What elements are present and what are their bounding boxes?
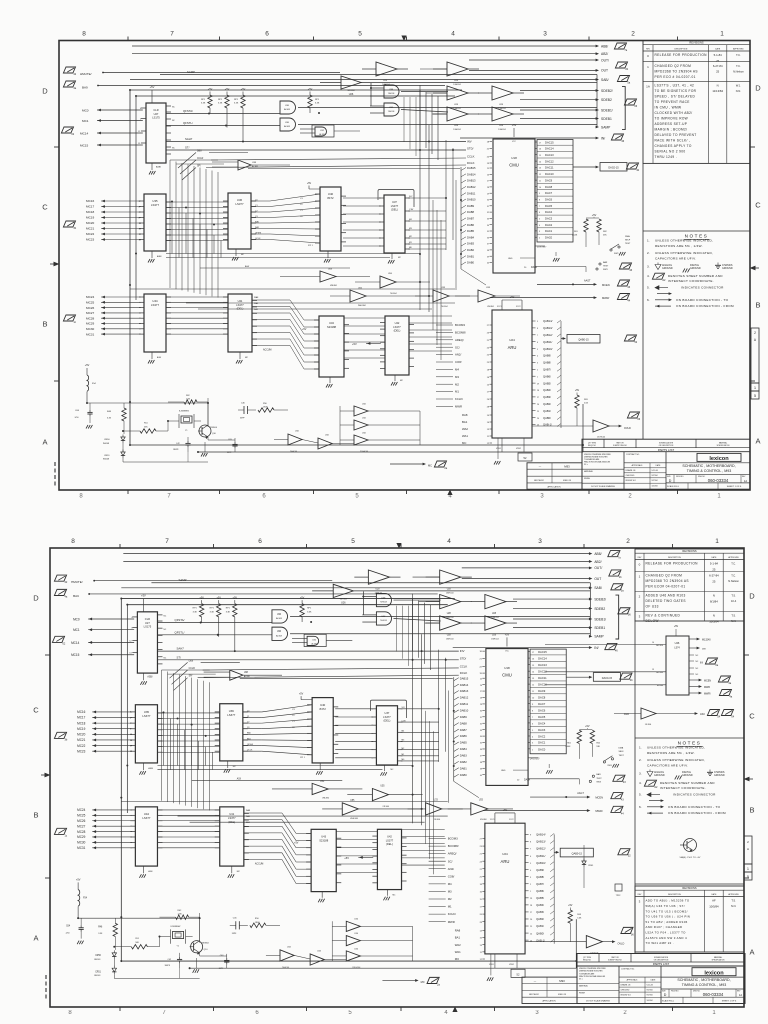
scale sheet row	[666, 482, 750, 484]
svg-text:9-21-84: 9-21-84	[647, 985, 653, 987]
svg-text:DIMENSIONS ARE IN INCHES: DIMENSIONS ARE IN INCHES	[584, 455, 608, 458]
transistor symbol in notes	[684, 839, 697, 852]
svg-text:UNLESS OTHERWISE INDICATED,: UNLESS OTHERWISE INDICATED,	[647, 746, 705, 750]
grid row ticks	[54, 146, 59, 148]
svg-text:RELEASE FOR PRODUCTION: RELEASE FOR PRODUCTION	[655, 53, 708, 57]
svg-text:SCALE FULL: SCALE FULL	[667, 485, 680, 488]
svg-text:AND R107 ; CHANGED: AND R107 ; CHANGED	[646, 925, 683, 929]
svg-text:T.C.: T.C.	[731, 562, 736, 566]
svg-text:C: C	[33, 706, 39, 715]
svg-text:N.Nelson: N.Nelson	[733, 69, 744, 73]
svg-text:T.C.: T.C.	[736, 64, 741, 68]
svg-text:NOMENCLATURE: NOMENCLATURE	[654, 956, 669, 959]
svg-text:MCB6: MCB6	[657, 685, 664, 687]
svg-text:B: B	[33, 811, 38, 820]
svg-text:REV: REV	[638, 557, 642, 559]
svg-text:QTY ITEM: QTY ITEM	[588, 443, 597, 445]
svg-text:10-4: 10-4	[731, 599, 737, 603]
svg-text:060-03334: 060-03334	[703, 992, 724, 997]
svg-text:TO IMPROVE ROW: TO IMPROVE ROW	[655, 117, 689, 121]
svg-text:T.S.: T.S.	[731, 594, 736, 598]
svg-text:6-27-84: 6-27-84	[713, 64, 723, 68]
U46 output MWR/	[689, 692, 700, 694]
U46 output DNI	[689, 647, 698, 649]
svg-text:INTERSECT COORDINATE.: INTERSECT COORDINATE.	[668, 279, 714, 283]
svg-text:1: 1	[754, 386, 756, 390]
svg-text:D: D	[755, 84, 761, 93]
svg-text:GROUND: GROUND	[722, 267, 733, 270]
svg-text:T.S.: T.S.	[731, 614, 736, 618]
svg-text:M93: M93	[564, 465, 570, 469]
svg-text:DWG NO.: DWG NO.	[693, 991, 701, 993]
svg-text:3.: 3.	[639, 772, 642, 776]
parts list header strip	[577, 961, 745, 963]
svg-text:6.: 6.	[647, 298, 650, 302]
svg-text:ON BOARD CONNECTION - FROM: ON BOARD CONNECTION - FROM	[676, 304, 734, 308]
svg-text:TIMING & CONTROL , M93: TIMING & CONTROL , M93	[687, 469, 731, 473]
svg-text:NC: NC	[696, 668, 699, 670]
wire M1326 feed	[545, 644, 640, 646]
svg-text:APPLICATION: APPLICATION	[542, 1000, 556, 1003]
svg-text:LS377'S , U37, 41 , 42: LS377'S , U37, 41 , 42	[655, 84, 695, 88]
svg-text:8/1/84: 8/1/84	[710, 599, 718, 603]
right column continuation	[642, 163, 644, 439]
svg-text:M1326: M1326	[656, 645, 663, 647]
svg-text:DENOTES SHEET NUMBER AND: DENOTES SHEET NUMBER AND	[660, 781, 715, 785]
svg-text:SPEED , ST/ DELAYED: SPEED , ST/ DELAYED	[655, 95, 696, 99]
svg-text:D: D	[42, 87, 48, 96]
svg-text:5: 5	[358, 31, 362, 38]
svg-text:N.N.: N.N.	[731, 904, 736, 908]
svg-text:14: 14	[652, 642, 654, 644]
svg-text:11/13/84: 11/13/84	[712, 89, 723, 93]
lexicon logo	[661, 976, 745, 978]
IC U46	[666, 636, 689, 695]
svg-text:9/27/84: 9/27/84	[652, 475, 658, 477]
svg-text:2: 2	[631, 31, 635, 38]
svg-text:NC: NC	[696, 661, 699, 663]
svg-text:MATERIAL: MATERIAL	[714, 956, 722, 959]
fold arrow right	[750, 266, 756, 271]
notes block	[643, 230, 750, 232]
svg-text:3: 3	[535, 1010, 539, 1016]
zone reference boxes	[751, 328, 759, 383]
svg-text:REV: REV	[638, 894, 642, 896]
svg-text:DESCRIPTION: DESCRIPTION	[674, 48, 688, 50]
svg-text:N: N	[713, 614, 715, 618]
svg-text:N.Nelson: N.Nelson	[728, 579, 739, 583]
svg-text:PART OR: PART OR	[611, 956, 619, 959]
svg-text:M1335: M1335	[656, 672, 663, 674]
svg-text:REVISIONS: REVISIONS	[682, 886, 696, 890]
fold arrow left	[45, 773, 51, 778]
fold arrow bottom	[447, 490, 452, 496]
svg-text:IDENTIFYING NO: IDENTIFYING NO	[608, 960, 622, 962]
svg-text:1A: 1A	[646, 85, 650, 89]
svg-text:DRAWN J.B: DRAWN J.B	[626, 469, 637, 472]
svg-text:RACE WITH SCLK/ ,: RACE WITH SCLK/ ,	[655, 139, 691, 143]
svg-text:51 TO ABV ; ADDED R106: 51 TO ABV ; ADDED R106	[646, 920, 688, 924]
svg-text:3: 3	[538, 538, 542, 545]
svg-text:0a: 0a	[715, 664, 718, 667]
svg-text:9/27/84: 9/27/84	[647, 995, 653, 997]
svg-text:MWR/: MWR/	[704, 692, 711, 695]
svg-text:4.: 4.	[647, 274, 650, 278]
svg-text:MPD2368 TO 2N3904 AS: MPD2368 TO 2N3904 AS	[655, 69, 698, 73]
svg-text:CHECKED: CHECKED	[621, 990, 630, 992]
svg-text:D: D	[749, 592, 755, 601]
svg-text:8: 8	[79, 494, 83, 500]
svg-text:DESCRIPTION: DESCRIPTION	[668, 894, 682, 896]
svg-text:10/1/84: 10/1/84	[647, 1000, 653, 1002]
svg-text:DIMENSIONS ARE IN INCHES: DIMENSIONS ARE IN INCHES	[579, 970, 603, 973]
svg-text:N: N	[717, 84, 719, 88]
svg-text:5.: 5.	[639, 793, 642, 797]
svg-text:A: A	[42, 438, 47, 447]
svg-text:B: B	[749, 806, 754, 815]
svg-text:7: 7	[162, 1010, 166, 1016]
svg-text:DATE: DATE	[711, 893, 717, 896]
svg-text:MATERIAL: MATERIAL	[579, 985, 588, 988]
fold arrow left	[54, 262, 60, 267]
svg-text:SERIAL NO 2 900: SERIAL NO 2 900	[655, 150, 686, 154]
svg-text:ALS574 AND SW 3 AND 4: ALS574 AND SW 3 AND 4	[646, 936, 687, 940]
svg-text:ISSUED W.J: ISSUED W.J	[621, 995, 631, 997]
svg-text:D: D	[669, 479, 672, 483]
svg-text:REV: REV	[742, 476, 746, 478]
svg-text:PARTS LIST: PARTS LIST	[653, 962, 670, 966]
svg-text:RESISTORS ARE 5% , 1/4W.: RESISTORS ARE 5% , 1/4W.	[655, 244, 703, 248]
svg-text:SHEET 1 OF 6: SHEET 1 OF 6	[722, 1000, 737, 1002]
svg-text:CHANGES APPLY TO: CHANGES APPLY TO	[655, 144, 692, 148]
svg-text:4.: 4.	[639, 781, 642, 785]
svg-text:7: 7	[170, 31, 174, 38]
svg-text:T.C.: T.C.	[731, 574, 736, 578]
svg-text:SPECIFICATION: SPECIFICATION	[712, 959, 726, 962]
svg-text:25: 25	[716, 59, 720, 63]
svg-text:DATE: DATE	[656, 464, 661, 467]
svg-text:GROUND: GROUND	[714, 774, 725, 777]
svg-text:DATE: DATE	[711, 556, 717, 559]
svg-text:6: 6	[265, 31, 269, 38]
svg-text:6-27-84: 6-27-84	[709, 574, 719, 578]
svg-text:BELOW: BELOW	[646, 619, 659, 623]
svg-text:N: N	[713, 594, 715, 598]
svg-text:8: 8	[82, 31, 86, 38]
svg-text:DNI: DNI	[702, 648, 706, 650]
svg-text:UNLESS OTHERWISE INDICATED,: UNLESS OTHERWISE INDICATED,	[655, 239, 713, 243]
svg-text:L52A TO F04 , LS377 TO: L52A TO F04 , LS377 TO	[646, 931, 687, 935]
svg-text:ADDED U46 AND R103: ADDED U46 AND R103	[646, 594, 686, 598]
fold arrow right	[744, 777, 750, 782]
svg-text:DO NOT SCALE DRAWING: DO NOT SCALE DRAWING	[591, 485, 615, 488]
svg-text:4: 4	[451, 31, 455, 38]
svg-text:USED ON: USED ON	[558, 994, 567, 996]
fold arrow top	[401, 36, 406, 42]
application block	[522, 977, 577, 1003]
svg-text:QTY ITEM: QTY ITEM	[583, 957, 592, 959]
svg-text:ISSUED W.J: ISSUED W.J	[626, 480, 636, 482]
svg-text:5-1-84: 5-1-84	[714, 53, 723, 57]
size fscm dwg row	[666, 474, 750, 476]
svg-text:1: 1	[747, 867, 749, 871]
sheet 1	[61, 43, 640, 470]
svg-text:060-03334: 060-03334	[708, 478, 729, 483]
svg-text:CAPACITORS ARE UF/V.: CAPACITORS ARE UF/V.	[655, 257, 696, 261]
svg-text:3: 3	[639, 900, 641, 904]
svg-text:MCEN: MCEN	[704, 679, 711, 682]
svg-text:REVISIONS: REVISIONS	[689, 41, 703, 45]
svg-text:MPD2368 TO 2N3904 AS: MPD2368 TO 2N3904 AS	[646, 579, 689, 583]
zone reference boxes sheet2	[744, 836, 752, 864]
grid column ticks bottom	[119, 1007, 121, 1011]
svg-text:C: C	[749, 712, 755, 721]
grid row ticks	[45, 654, 50, 656]
svg-text:10/5/84: 10/5/84	[709, 904, 719, 908]
svg-text:NC: NC	[696, 655, 699, 657]
title block outer	[577, 954, 745, 1004]
svg-text:XX ±: XX ±	[579, 979, 583, 981]
svg-text:USED ON: USED ON	[563, 480, 572, 482]
lexicon logo	[666, 462, 750, 464]
svg-text:2.: 2.	[639, 758, 642, 762]
svg-text:ON BOARD CONNECTION - FROM: ON BOARD CONNECTION - FROM	[668, 811, 726, 815]
svg-text:NEXT ASSY: NEXT ASSY	[529, 993, 540, 996]
svg-text:2.: 2.	[647, 251, 650, 255]
svg-text:REQD NO: REQD NO	[583, 960, 592, 962]
margin dash marks	[54, 462, 56, 466]
svg-text:0: 0	[647, 54, 649, 58]
svg-text:1: 1	[639, 575, 641, 579]
svg-text:RESISTORS ARE 5% , 1/4W.: RESISTORS ARE 5% , 1/4W.	[647, 751, 695, 755]
svg-text:MWR: MWR	[704, 686, 710, 689]
svg-text:8: 8	[68, 1010, 72, 1016]
svg-text:AS0: AS0	[700, 713, 705, 716]
svg-text:1: 1	[715, 538, 719, 545]
svg-text:25: 25	[712, 579, 716, 583]
svg-text:LS74: LS74	[674, 648, 680, 650]
svg-text:5: 5	[754, 394, 756, 398]
svg-text:B: B	[42, 320, 47, 329]
svg-text:DENOTES SHEET NUMBER AND: DENOTES SHEET NUMBER AND	[668, 274, 723, 278]
svg-text:TP32: TP32	[616, 895, 622, 897]
svg-text:13: 13	[652, 669, 654, 671]
svg-text:10/1/84: 10/1/84	[652, 486, 658, 488]
svg-text:1: 1	[720, 31, 724, 38]
svg-text:ADD TO AB(/) ; M13236 TO: ADD TO AB(/) ; M13236 TO	[646, 899, 690, 903]
svg-text:lexicon: lexicon	[704, 970, 724, 976]
scale sheet row	[661, 996, 745, 998]
svg-text:FINISH: FINISH	[584, 478, 591, 480]
svg-text:5.: 5.	[647, 286, 650, 290]
svg-text:T.C.: T.C.	[736, 53, 741, 57]
svg-text:SCHEMATIC , MOTHERBOARD,: SCHEMATIC , MOTHERBOARD,	[682, 464, 735, 468]
svg-text:TO U56 TO U56 ) ; U24 PIN: TO U56 TO U56 ) ; U24 PIN	[646, 915, 691, 919]
svg-text:1: 1	[647, 65, 649, 69]
svg-text:A: A	[749, 948, 754, 957]
svg-text:MATERIAL: MATERIAL	[584, 470, 593, 473]
svg-text:APPROVED: APPROVED	[733, 47, 744, 50]
svg-text:TIMING & CONTROL , M93: TIMING & CONTROL , M93	[682, 983, 726, 987]
svg-text:25: 25	[712, 567, 716, 571]
svg-text:FSCM NO.: FSCM NO.	[676, 476, 684, 478]
svg-text:OR DESCRIPTION: OR DESCRIPTION	[659, 445, 674, 447]
application block	[527, 463, 582, 489]
revision table	[635, 549, 744, 621]
svg-text:DATE: DATE	[651, 979, 656, 982]
svg-text:25: 25	[716, 70, 720, 74]
size fscm dwg row	[661, 988, 745, 990]
svg-text:THRU 1249 .: THRU 1249 .	[655, 155, 677, 159]
svg-text:OR DESCRIPTION: OR DESCRIPTION	[654, 960, 669, 962]
svg-text:APPROVED: APPROVED	[728, 893, 739, 896]
svg-text:4: 4	[447, 538, 451, 545]
test point TP32	[615, 884, 622, 891]
svg-text:T.S.: T.S.	[731, 899, 736, 903]
svg-text:1/6 F04: 1/6 F04	[645, 724, 651, 726]
svg-text:IDENTIFYING NO: IDENTIFYING NO	[613, 445, 627, 447]
svg-text:3: 3	[540, 494, 544, 500]
svg-text:lexicon: lexicon	[709, 456, 729, 462]
svg-text:SHEET 1 OF 6: SHEET 1 OF 6	[727, 486, 742, 488]
svg-text:REV: REV	[646, 48, 650, 50]
svg-text:—: —	[539, 466, 542, 469]
sheet 2	[52, 551, 634, 987]
svg-text:5M(A) : PH 1 TO +5V: 5M(A) : PH 1 TO +5V	[680, 856, 701, 859]
svg-text:5: 5	[747, 875, 749, 879]
U46 output MWR	[689, 686, 700, 688]
svg-text:0: 0	[639, 563, 641, 567]
svg-text:TOLERANCES ARE: TOLERANCES ARE	[579, 972, 595, 975]
svg-text:9/27/84: 9/27/84	[652, 480, 658, 482]
svg-text:CLOCKED WITH AB2/: CLOCKED WITH AB2/	[655, 111, 693, 115]
svg-text:CAPACITORS ARE UF/V.: CAPACITORS ARE UF/V.	[647, 764, 688, 768]
svg-text:1A: 1A	[739, 993, 742, 997]
svg-text:2: 2	[754, 331, 756, 335]
svg-text:M93: M93	[559, 979, 565, 983]
wire MCB6 feed	[545, 684, 640, 686]
svg-text:INTERSECT COORDINATE.: INTERSECT COORDINATE.	[660, 786, 706, 790]
svg-text:U46: U46	[675, 641, 680, 645]
svg-text:7: 7	[165, 538, 169, 545]
svg-text:54: 54	[717, 715, 720, 718]
svg-text:NEXT ASSY: NEXT ASSY	[534, 479, 545, 482]
svg-text:ON BOARD CONNECTION - TO: ON BOARD CONNECTION - TO	[668, 805, 721, 809]
svg-text:FSCM NO.: FSCM NO.	[671, 991, 679, 993]
svg-text:1A: 1A	[744, 479, 747, 483]
svg-text:GROUND: GROUND	[654, 774, 665, 777]
svg-text:ON BOARD CONNECTION - TO: ON BOARD CONNECTION - TO	[676, 298, 729, 302]
svg-text:5-1-84: 5-1-84	[710, 562, 719, 566]
svg-text:REV: REV	[737, 991, 741, 993]
svg-text:CHANGED Q2 FROM: CHANGED Q2 FROM	[646, 574, 683, 578]
svg-text:9/27/84: 9/27/84	[647, 990, 653, 992]
svg-text:DATE: DATE	[715, 47, 721, 50]
svg-text:REQD NO: REQD NO	[588, 445, 597, 447]
svg-text:DESCRIPTION: DESCRIPTION	[668, 557, 682, 559]
svg-text:CONTRACT NO.: CONTRACT NO.	[626, 453, 640, 456]
svg-text:A2: A2	[662, 279, 666, 282]
svg-text:4: 4	[444, 1010, 448, 1016]
svg-text:MARGIN ; BCOM2/: MARGIN ; BCOM2/	[655, 128, 688, 132]
svg-text:DWG NO.: DWG NO.	[698, 476, 706, 478]
svg-text:5M(A) U46 TO U36 ; ST/: 5M(A) U46 TO U36 ; ST/	[646, 904, 685, 908]
svg-text:2: 2	[628, 494, 632, 500]
svg-text:PER ECO # 04-0207-01: PER ECO # 04-0207-01	[655, 75, 696, 79]
svg-text:3.: 3.	[647, 265, 650, 269]
svg-text:9-21-84: 9-21-84	[652, 470, 658, 472]
svg-text:4a: 4a	[728, 682, 731, 685]
svg-text:APPROVALS: APPROVALS	[632, 464, 644, 467]
svg-text:TO PREVENT RACE: TO PREVENT RACE	[655, 100, 690, 104]
svg-text:GROUND: GROUND	[662, 267, 673, 270]
svg-text:UNLESS OTHERWISE INDICATED,: UNLESS OTHERWISE INDICATED,	[647, 758, 705, 762]
svg-text:B: B	[755, 301, 760, 310]
svg-text:1.: 1.	[647, 239, 650, 243]
svg-text:IN/: IN/	[700, 662, 703, 665]
svg-text:A: A	[747, 847, 749, 851]
svg-text:NOMENCLATURE: NOMENCLATURE	[659, 442, 674, 445]
parts list header strip	[582, 447, 750, 449]
svg-text:2: 2	[626, 538, 630, 545]
svg-text:3: 3	[543, 31, 547, 38]
svg-text:UNLESS OTHERWISE INDICATED,: UNLESS OTHERWISE INDICATED,	[655, 251, 713, 255]
diode CR61	[583, 845, 585, 861]
svg-text:FINISH: FINISH	[579, 993, 586, 995]
svg-text:2: 2	[639, 595, 641, 599]
svg-text:1: 1	[712, 1010, 716, 1016]
svg-text:CONTRACT NO.: CONTRACT NO.	[621, 968, 635, 971]
svg-text:8: 8	[71, 538, 75, 545]
svg-text:A: A	[755, 437, 760, 446]
svg-text:N.N.: N.N.	[731, 619, 736, 623]
svg-text:REVISIONS: REVISIONS	[682, 549, 696, 553]
svg-text:1: 1	[717, 494, 721, 500]
svg-text:2: 2	[623, 1010, 627, 1016]
svg-text:OF U33: OF U33	[646, 605, 659, 609]
wire M1335 feed	[545, 671, 640, 673]
svg-text:SCALE FULL: SCALE FULL	[662, 999, 675, 1002]
svg-text:AF: AF	[712, 899, 716, 903]
margin dash marks	[45, 975, 47, 979]
svg-text:C: C	[42, 203, 48, 212]
svg-text:N.N.: N.N.	[736, 89, 741, 93]
buffer AS0 U55	[641, 708, 656, 719]
svg-text:5: 5	[348, 1010, 352, 1016]
svg-text:SPECIFICATION: SPECIFICATION	[717, 444, 731, 447]
svg-text:3: 3	[639, 615, 641, 619]
svg-text:NC: NC	[696, 674, 699, 676]
svg-text:DELAYED TO PREVENT: DELAYED TO PREVENT	[655, 133, 697, 137]
title block inner grid	[623, 452, 625, 490]
svg-text:DELETED TWO GATES: DELETED TWO GATES	[646, 599, 686, 603]
svg-text:APPROVALS: APPROVALS	[627, 979, 639, 982]
svg-text:FRACTIONS DECIMALS ANGLES: FRACTIONS DECIMALS ANGLES	[584, 461, 611, 464]
svg-text:04: 04	[731, 715, 734, 718]
svg-text:5: 5	[355, 494, 359, 500]
svg-text:+5V: +5V	[674, 625, 679, 628]
svg-text:1.: 1.	[639, 746, 642, 750]
svg-text:6: 6	[258, 538, 262, 545]
svg-text:6: 6	[255, 1010, 259, 1016]
svg-text:XX ±: XX ±	[584, 464, 588, 466]
title block inner grid	[618, 966, 620, 1004]
revision table	[635, 886, 744, 952]
svg-text:W.J.: W.J.	[736, 84, 741, 88]
svg-text:CR61: CR61	[588, 865, 594, 867]
svg-text:TO U41 TO U15 ( BCOM2/: TO U41 TO U15 ( BCOM2/	[646, 909, 688, 913]
svg-text:4a: 4a	[729, 695, 732, 698]
